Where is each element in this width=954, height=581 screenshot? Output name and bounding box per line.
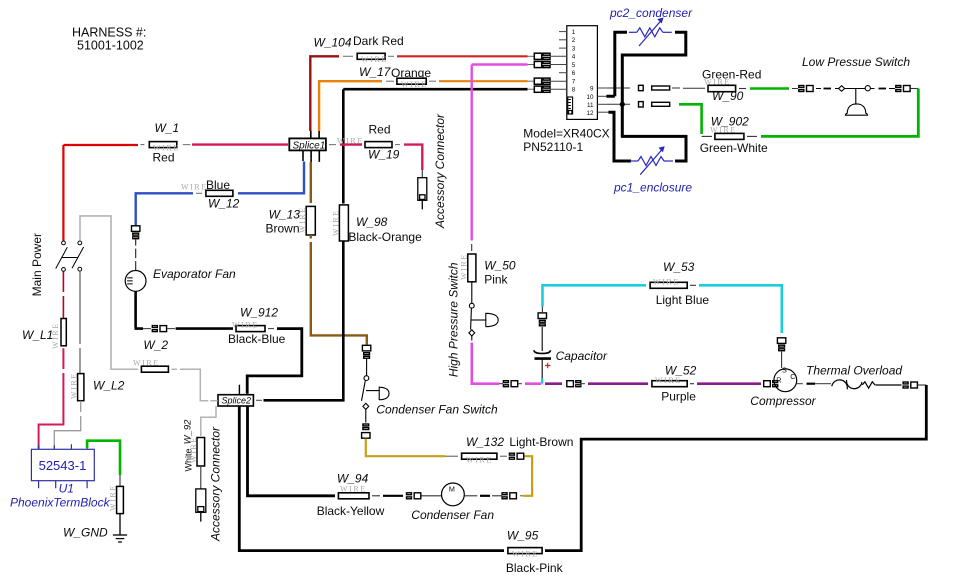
splice Splice1	[289, 131, 326, 162]
diamond terminal	[839, 86, 845, 92]
svg-text:WIRE: WIRE	[332, 209, 341, 236]
low pressure switch	[816, 86, 895, 116]
wire W_95 black-pink run	[239, 406, 504, 551]
wire lead into W_50 box	[471, 244, 473, 251]
high pressure switch	[469, 282, 498, 341]
capacitor plus sign	[545, 363, 550, 368]
wire green from pin11 elbow	[679, 104, 702, 134]
svg-text:S: S	[782, 365, 787, 374]
svg-text:Condenser Fan: Condenser Fan	[411, 508, 494, 522]
wire green W_902 loop	[761, 89, 918, 137]
wire lead to W_GND box	[119, 475, 121, 486]
contact low pressure right	[896, 86, 910, 92]
svg-text:9: 9	[590, 86, 594, 93]
wire olive W_132 from switch	[366, 439, 446, 457]
svg-text:Black-Orange: Black-Orange	[348, 230, 422, 244]
svg-text:Black-Yellow: Black-Yellow	[317, 504, 385, 518]
svg-text:U1: U1	[59, 482, 74, 496]
svg-text:8: 8	[572, 87, 576, 94]
contact pin 11 (square + long rect)	[639, 102, 670, 107]
wire label box W_98 (vertical)	[332, 205, 349, 241]
svg-text:W_50: W_50	[484, 259, 516, 273]
wire label box W_104	[357, 53, 388, 64]
wire cyan right segment down to compressor	[690, 284, 696, 286]
wire gray below W_L2 to terminal block	[54, 401, 80, 449]
wire pole1 red below switch to fuse W_L1	[62, 272, 64, 319]
harness title text	[72, 26, 146, 53]
wire W_98 black lower segment to Splice2	[264, 241, 344, 400]
svg-text:Condenser Fan Switch: Condenser Fan Switch	[376, 403, 498, 417]
wire pole2 gray up and right (W_2 feed)	[80, 216, 111, 366]
wire W_1 red horizontal segment	[63, 144, 138, 146]
contact compressor top (vertical)	[777, 338, 785, 351]
contact condenser fan right	[502, 493, 516, 499]
wire label box W_L2 (fuse)	[70, 372, 84, 401]
svg-text:W_19: W_19	[368, 148, 400, 162]
wire label box W_912	[232, 321, 265, 332]
main power switch pole 2	[72, 241, 84, 271]
terminal block U1 52543-1	[31, 444, 94, 488]
wire label box W_1	[149, 142, 180, 153]
contact condenser fan switch top (vertical)	[362, 345, 370, 358]
svg-text:W_98: W_98	[356, 215, 388, 229]
svg-text:Thermal Overload: Thermal Overload	[806, 364, 902, 378]
wire label box W_19	[337, 137, 392, 148]
thermal overload symbol	[832, 380, 902, 389]
svg-text:3: 3	[572, 45, 576, 52]
splice Splice2	[218, 385, 253, 406]
wire purple right segment	[690, 383, 694, 385]
wire W_13 brown lower segment to condenser fan switch	[311, 235, 367, 345]
pin 10 line	[597, 95, 606, 97]
wire green W_90 to low pressure switch	[739, 88, 746, 90]
svg-text:W_90: W_90	[712, 89, 744, 103]
contact condenser fan left	[407, 493, 421, 499]
ground symbol	[113, 514, 127, 542]
U1 pin stubs top	[39, 444, 88, 449]
accessory connector (bottom) symbol	[196, 489, 206, 522]
wire W_912 right segment to Splice2	[268, 328, 274, 330]
svg-text:Model=XR40CX: Model=XR40CX	[523, 127, 609, 141]
wire label box W_50 (vertical)	[460, 253, 476, 282]
contact pin 4	[534, 53, 550, 59]
contact condenser fan switch bottom (vertical, bars top square bottom)	[362, 424, 370, 438]
svg-text:WIRE: WIRE	[512, 550, 539, 559]
thick wire pin10 to pc2_condenser bracket	[606, 32, 627, 96]
switch gang link	[62, 257, 78, 259]
svg-text:7: 7	[572, 78, 576, 85]
svg-text:Pink: Pink	[484, 273, 508, 287]
svg-text:Accessory Connector: Accessory Connector	[209, 426, 223, 542]
wire pin9 lead to W_90	[672, 87, 680, 89]
U1 pin stubs bottom	[39, 481, 88, 489]
condenser fan M2	[442, 483, 465, 506]
svg-text:W_L1: W_L1	[22, 328, 53, 342]
contact thermal overload right	[903, 382, 917, 388]
wire cyan stub at junction	[541, 378, 543, 383]
contact pin 8	[534, 86, 550, 92]
wire label box W_902	[710, 126, 744, 140]
condenser fan switch	[362, 359, 390, 423]
svg-text:pc2_condenser: pc2_condenser	[609, 6, 693, 20]
wire label box W_GND	[109, 484, 124, 513]
wire from condenser fan right	[464, 495, 477, 497]
wire label box W_13 (vertical)	[298, 206, 315, 235]
wire label box W_95	[508, 548, 542, 559]
wire lead right of W_94 box	[372, 495, 380, 497]
svg-text:6: 6	[572, 70, 576, 77]
contact W_912 left	[152, 326, 166, 332]
svg-text:Capacitor: Capacitor	[556, 349, 608, 363]
wire label box W_90	[704, 78, 736, 92]
svg-text:Accessory Connector: Accessory Connector	[433, 113, 447, 229]
svg-text:R: R	[776, 375, 781, 384]
wire lead right of W_132 box	[500, 455, 507, 457]
connector U-XR40CX body	[567, 26, 598, 120]
contact low pressure left	[799, 86, 813, 92]
bell	[486, 313, 498, 327]
svg-text:WIRE: WIRE	[704, 78, 731, 87]
svg-text:2: 2	[572, 37, 576, 44]
svg-text:1: 1	[572, 29, 576, 36]
wire W_2 gray right segment	[171, 368, 177, 370]
wire W_12 blue: splice1 down-left to evap fan	[302, 158, 304, 161]
contact compressor left	[764, 381, 778, 387]
thermistor pc1_enclosure	[630, 149, 673, 175]
wire pole2 below switch to fuse W_L2	[79, 271, 81, 373]
wire W_13 brown upper segment	[310, 158, 312, 162]
svg-text:Evaporator Fan: Evaporator Fan	[153, 267, 236, 281]
contact capacitor top (vertical)	[538, 313, 546, 326]
svg-text:WIRE: WIRE	[298, 206, 307, 233]
svg-text:W_13: W_13	[269, 208, 301, 222]
wire lead contact to fan	[135, 239, 137, 270]
pin 12 line	[597, 111, 608, 113]
svg-text:W_2: W_2	[143, 338, 168, 352]
svg-text:W_912: W_912	[240, 306, 278, 320]
svg-text:WIRE: WIRE	[460, 253, 469, 280]
junction dot pin 11	[620, 102, 625, 107]
svg-text:WIRE: WIRE	[340, 485, 367, 494]
circle terminal	[865, 86, 870, 91]
wire label box W_L1 (fuse)	[51, 319, 66, 350]
contact pin 7	[534, 78, 550, 84]
wire W_12 blue left segment	[196, 192, 202, 194]
contact pink mid	[503, 381, 517, 387]
wire W_17 orange right segment to connector pin 7	[429, 80, 436, 82]
wire W_19 crimson right segment down to accessory connector	[395, 144, 400, 146]
pin 11 line	[597, 103, 606, 105]
wire pink W_50 lower segment	[472, 343, 499, 384]
pin 9 line	[597, 87, 606, 89]
accessory connector (top) symbol	[418, 178, 427, 210]
svg-text:WIRE: WIRE	[189, 436, 198, 463]
wire W_95 right segment up to thermal overload	[545, 385, 926, 551]
contact W_132 right	[509, 453, 523, 459]
svg-text:WIRE: WIRE	[466, 456, 493, 465]
contact pin 5	[534, 61, 550, 67]
wire W_2 gray from pole2 loop to splice2	[111, 366, 138, 369]
svg-text:M: M	[449, 484, 455, 493]
svg-text:PN52110-1: PN52110-1	[523, 140, 583, 154]
wire lead to green corner	[911, 88, 919, 90]
svg-text:W_17: W_17	[359, 65, 392, 79]
svg-text:WIRE: WIRE	[655, 376, 682, 385]
svg-text:W_94: W_94	[337, 472, 369, 486]
bellows actuator stem	[855, 89, 857, 105]
svg-text:WIRE: WIRE	[109, 484, 118, 511]
wire W_104 dark red segment	[310, 56, 339, 131]
bellows dome	[846, 104, 868, 115]
diamond terminal	[469, 330, 475, 336]
svg-text:Dark Red: Dark Red	[353, 34, 404, 48]
wire W_19 crimson from Splice1	[329, 144, 336, 146]
wire label box W_17	[397, 78, 428, 89]
svg-text:52543-1: 52543-1	[39, 458, 87, 473]
wire W_17 orange left segment	[319, 81, 382, 131]
svg-text:Light-Brown: Light-Brown	[509, 435, 573, 449]
wire cyan W_53: capacitor to compressor	[543, 285, 647, 306]
svg-text:WIRE: WIRE	[181, 183, 208, 192]
svg-text:High Pressure Switch: High Pressure Switch	[447, 262, 461, 377]
svg-text:Low Pressue Switch: Low Pressue Switch	[802, 55, 910, 69]
svg-text:Splice2: Splice2	[222, 396, 252, 406]
wire lead right of W_902 box	[747, 135, 757, 137]
connector internal icon	[568, 97, 573, 114]
wire label box W_94	[338, 485, 369, 499]
evaporator fan motor	[125, 271, 146, 292]
wire label box W_132	[462, 453, 497, 464]
wire W_912 black-blue: evap fan to splice2	[135, 291, 144, 328]
wire compressor to thermal overload	[797, 383, 803, 385]
diamond terminal	[363, 403, 369, 409]
wire label box W_53	[650, 278, 687, 289]
wire green from U1 to ground	[87, 441, 120, 475]
wire olive down to condenser fan	[523, 456, 532, 496]
wire label box W_92 (vertical)	[189, 436, 205, 466]
svg-text:Splice1: Splice1	[293, 140, 326, 151]
wire crimson below W_L1 down-left to terminal block	[39, 348, 64, 449]
svg-text:Black-Pink: Black-Pink	[506, 561, 564, 575]
svg-text:4: 4	[572, 54, 576, 61]
svg-text:51001-1002: 51001-1002	[77, 39, 144, 53]
capacitor C1	[534, 327, 551, 378]
svg-text:WIRE: WIRE	[133, 359, 160, 368]
svg-text:Main Power: Main Power	[30, 233, 44, 296]
svg-text:11: 11	[587, 102, 594, 109]
svg-text:W_1: W_1	[155, 121, 180, 135]
wire label box W_12	[181, 183, 233, 197]
svg-text:WIRE: WIRE	[70, 372, 79, 399]
svg-text:pc1_enclosure: pc1_enclosure	[613, 180, 692, 194]
svg-text:WIRE: WIRE	[51, 322, 60, 349]
svg-text:W_53: W_53	[663, 260, 695, 274]
wire W_94 black from splice2	[248, 406, 336, 496]
main power switch pole 1	[56, 241, 68, 271]
svg-text:Black-Blue: Black-Blue	[228, 332, 286, 346]
svg-text:W_95: W_95	[507, 528, 539, 542]
svg-text:C: C	[790, 372, 795, 381]
svg-text:W_L2: W_L2	[93, 379, 125, 393]
bell	[379, 387, 389, 400]
wire W_95 lead from thermal overload	[918, 384, 927, 386]
wire pink (W_50 feed) from pin 5	[472, 65, 528, 241]
svg-text:W_12: W_12	[208, 197, 240, 211]
svg-text:Red: Red	[153, 151, 175, 165]
wire pink to capacitor junction	[518, 383, 522, 385]
wire W_1 crimson segment to Splice1	[183, 144, 191, 146]
wire label box W_2	[133, 359, 168, 373]
contact purple left	[567, 381, 581, 387]
svg-text:W_132: W_132	[466, 435, 504, 449]
svg-text:5: 5	[572, 62, 576, 69]
svg-text:Green-White: Green-White	[700, 141, 768, 155]
wire W_104 red segment to connector pin 4	[388, 55, 394, 57]
wire W_92 white from splice2 down-left	[201, 406, 216, 436]
svg-text:Brown: Brown	[266, 222, 300, 236]
connector pin numbers 1-8	[572, 29, 576, 94]
svg-text:12: 12	[586, 110, 594, 117]
thermistor pc2_condenser	[629, 20, 672, 46]
svg-text:PhoenixTermBlock: PhoenixTermBlock	[10, 496, 111, 510]
pin lines 4,5,7,8	[550, 56, 567, 89]
svg-text:W_104: W_104	[314, 36, 352, 50]
svg-text:W_GND: W_GND	[63, 526, 108, 540]
wire W_98 black segment from pin 8	[343, 89, 527, 203]
wire W_1 red vertical to switch	[62, 145, 64, 241]
svg-text:WIRE: WIRE	[653, 278, 680, 287]
wire purple W_52	[545, 382, 562, 385]
svg-text:Purple: Purple	[661, 390, 696, 404]
wire label box W_52	[652, 376, 687, 387]
svg-text:HARNESS #:: HARNESS #:	[72, 26, 146, 40]
contact pin 9 (square + long rect)	[639, 85, 670, 90]
contact evaporator fan top (vertical)	[132, 226, 140, 239]
wire lead to bottom accessory connector	[200, 466, 202, 489]
svg-text:WIRE: WIRE	[232, 321, 259, 330]
thick wire pin12 to pc1_enclosure bracket	[608, 111, 631, 161]
svg-text:Red: Red	[369, 123, 391, 137]
svg-text:Compressor: Compressor	[750, 394, 816, 408]
connector pin numbers 9-12	[586, 86, 594, 118]
svg-text:WIRE: WIRE	[401, 80, 428, 89]
svg-text:Light Blue: Light Blue	[656, 293, 710, 307]
compressor M1	[774, 369, 797, 392]
svg-text:WIRE: WIRE	[361, 55, 388, 64]
svg-text:10: 10	[586, 94, 594, 101]
pin stub lines 1,2,3,6	[559, 32, 567, 73]
svg-text:WIRE: WIRE	[337, 137, 364, 146]
svg-text:WIRE: WIRE	[710, 126, 737, 135]
